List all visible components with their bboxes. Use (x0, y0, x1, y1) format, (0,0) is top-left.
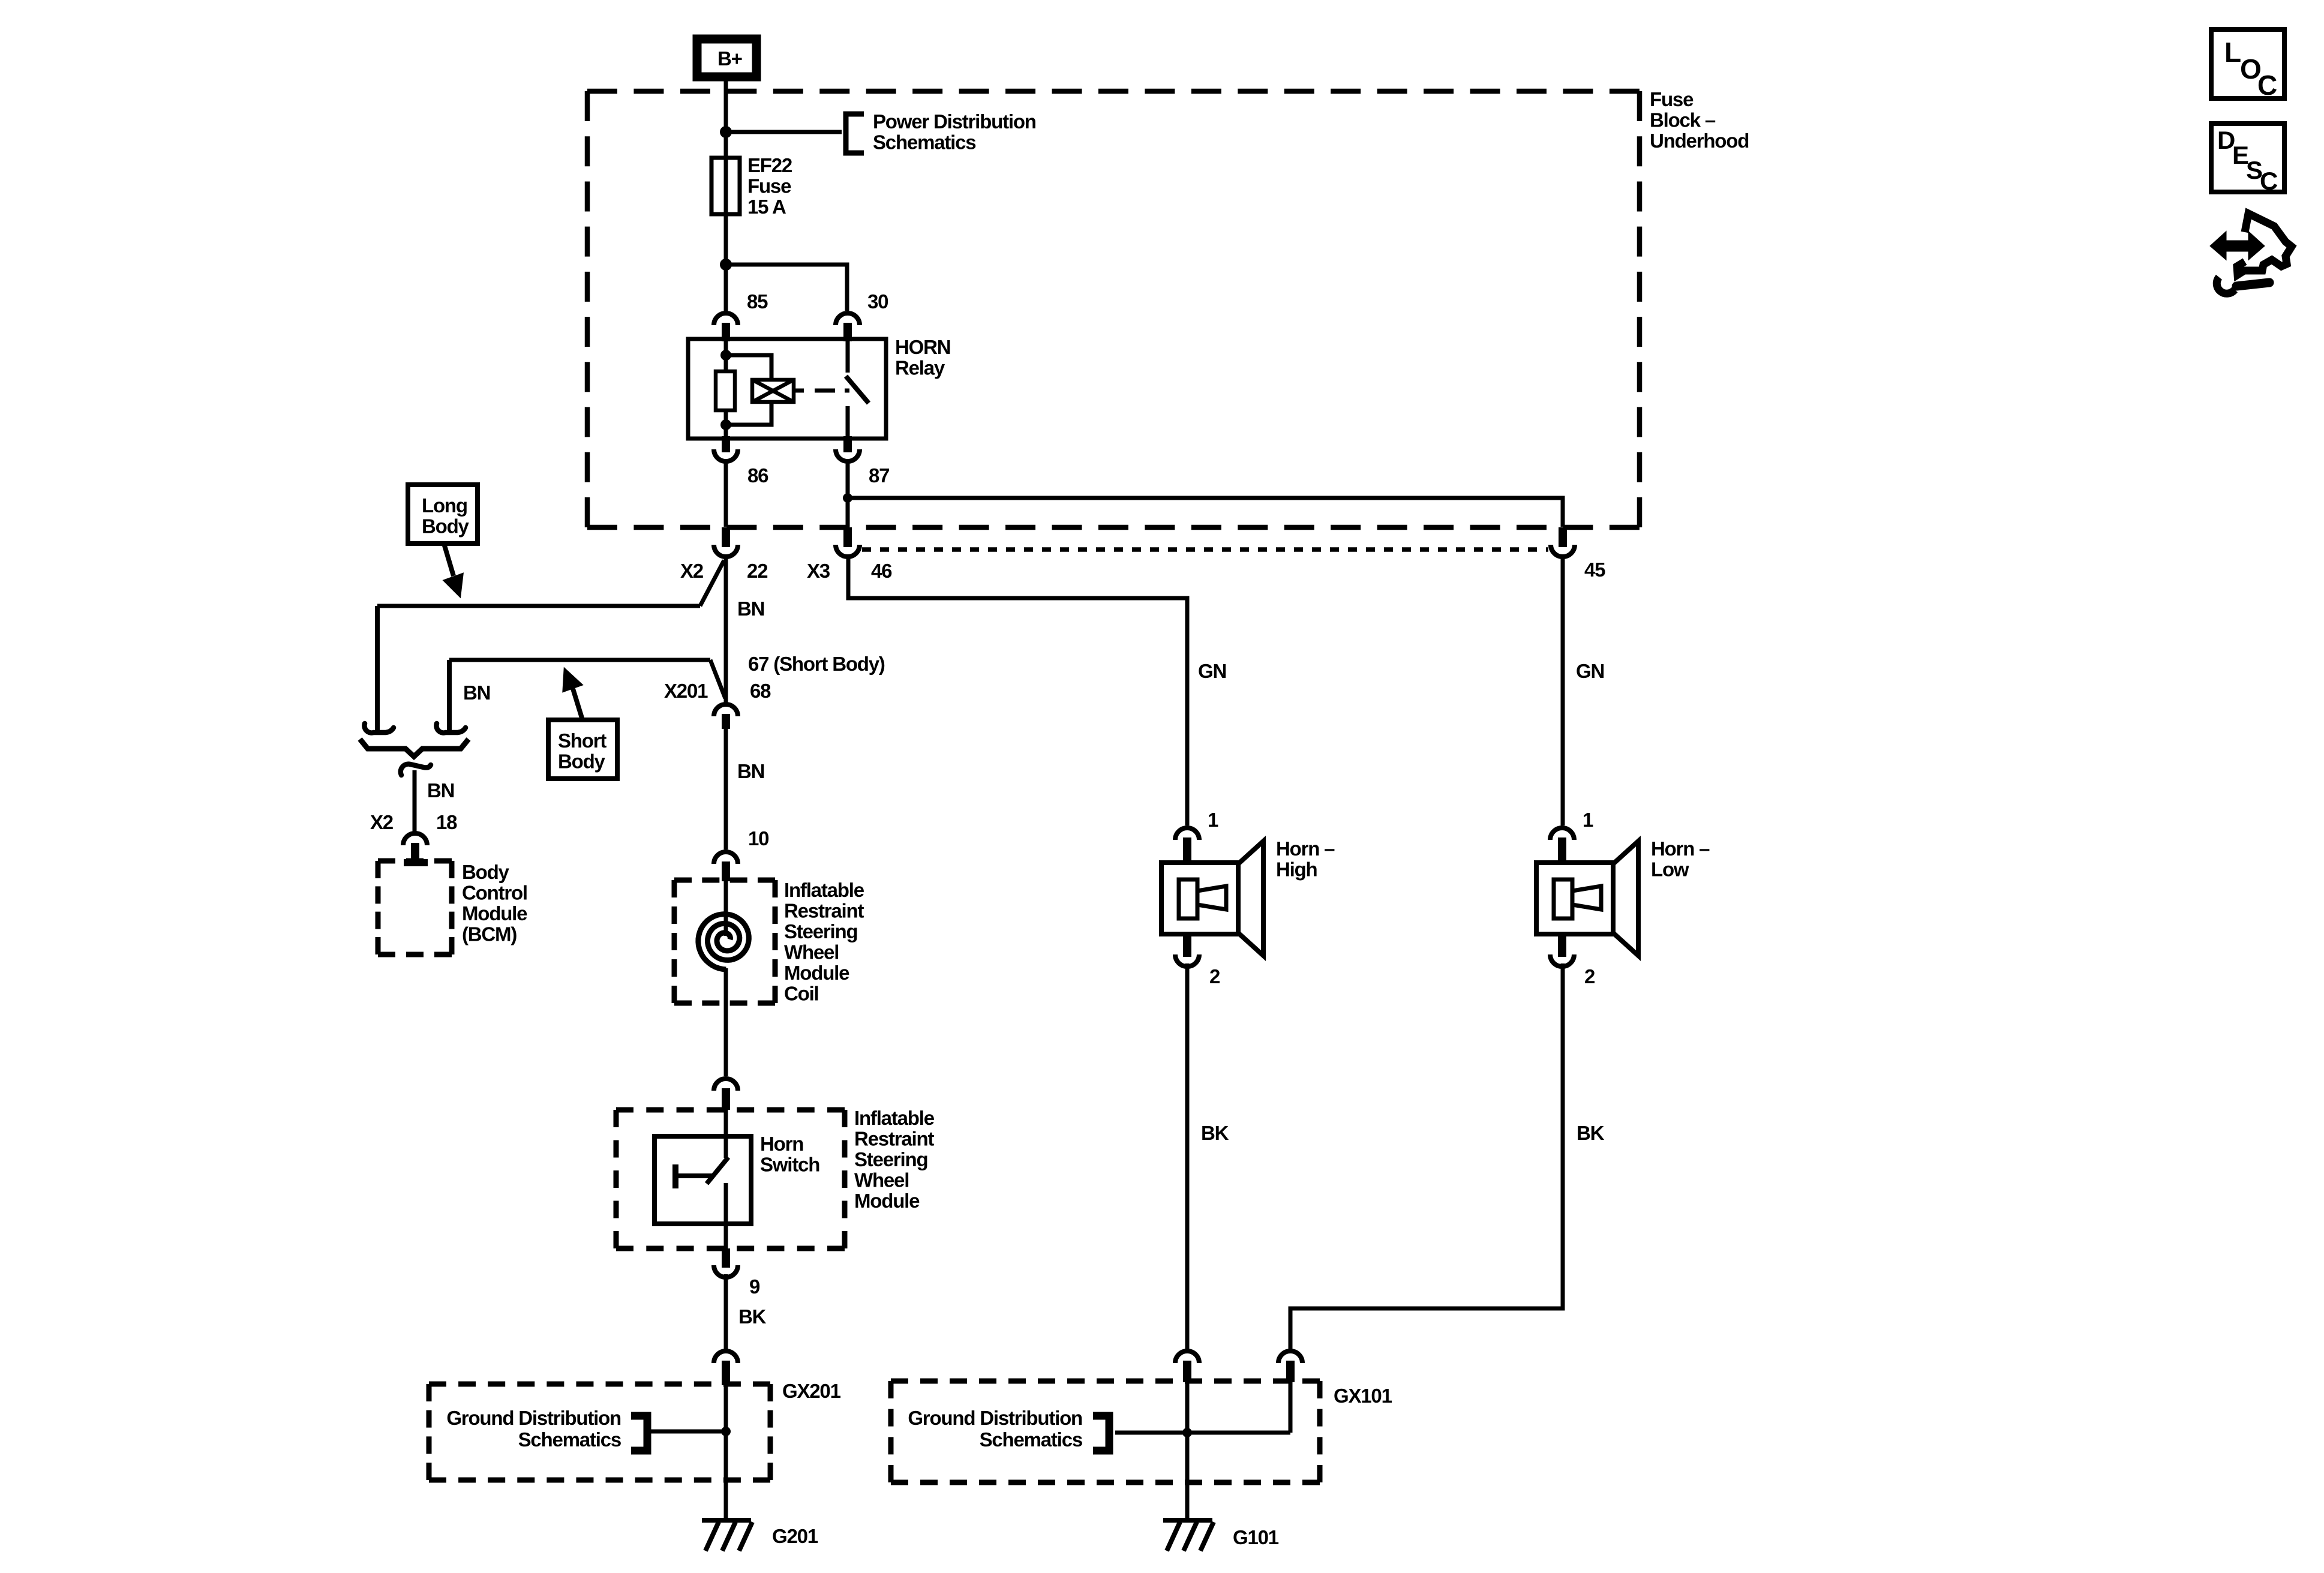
svg-text:BK: BK (1201, 1122, 1229, 1144)
svg-text:9: 9 (749, 1275, 760, 1298)
svg-text:X3: X3 (807, 560, 830, 582)
svg-text:85: 85 (747, 290, 768, 313)
svg-text:Schematics: Schematics (980, 1428, 1082, 1451)
svg-text:B+: B+ (717, 47, 742, 70)
svg-text:Power Distribution: Power Distribution (873, 110, 1036, 133)
svg-text:87: 87 (869, 464, 889, 487)
svg-text:BN: BN (737, 598, 764, 620)
svg-text:Underhood: Underhood (1650, 130, 1749, 152)
svg-text:GX101: GX101 (1334, 1385, 1392, 1407)
svg-text:Horn: Horn (760, 1133, 803, 1155)
svg-text:Ground Distribution: Ground Distribution (908, 1407, 1082, 1429)
svg-text:Horn –: Horn – (1651, 837, 1710, 860)
svg-text:Steering: Steering (854, 1148, 927, 1170)
svg-text:2: 2 (1209, 965, 1220, 987)
svg-text:C: C (2260, 167, 2278, 195)
svg-text:(BCM): (BCM) (462, 923, 517, 945)
svg-text:Restraint: Restraint (854, 1128, 934, 1150)
svg-text:86: 86 (747, 464, 768, 487)
svg-text:1: 1 (1583, 809, 1593, 831)
svg-text:Wheel: Wheel (854, 1169, 909, 1191)
svg-text:High: High (1276, 858, 1317, 881)
svg-text:Body: Body (422, 515, 470, 538)
svg-text:L: L (2224, 37, 2241, 68)
svg-text:68: 68 (750, 680, 771, 702)
svg-text:Module: Module (854, 1190, 920, 1212)
svg-text:BK: BK (738, 1305, 767, 1328)
svg-text:Module: Module (462, 902, 527, 924)
svg-text:X2: X2 (680, 560, 704, 582)
svg-text:10: 10 (748, 827, 768, 849)
svg-text:BN: BN (427, 779, 454, 801)
svg-text:GN: GN (1198, 660, 1226, 682)
svg-text:Fuse: Fuse (747, 175, 791, 197)
svg-text:BK: BK (1577, 1122, 1605, 1144)
svg-text:HORN: HORN (895, 336, 950, 358)
svg-text:Ground Distribution: Ground Distribution (446, 1407, 621, 1429)
svg-text:Relay: Relay (895, 357, 945, 379)
svg-text:BN: BN (737, 760, 764, 782)
svg-text:67 (Short Body): 67 (Short Body) (748, 653, 885, 675)
svg-text:X2: X2 (370, 811, 394, 833)
svg-text:GX201: GX201 (782, 1380, 841, 1402)
svg-text:Steering: Steering (784, 920, 857, 942)
svg-text:Body: Body (558, 751, 606, 773)
svg-text:Schematics: Schematics (518, 1428, 621, 1451)
svg-text:Restraint: Restraint (784, 900, 864, 922)
svg-text:2: 2 (1584, 965, 1595, 987)
svg-text:Short: Short (558, 730, 606, 752)
svg-text:1: 1 (1208, 809, 1218, 831)
svg-text:Switch: Switch (760, 1154, 819, 1176)
svg-text:Long: Long (422, 494, 467, 517)
svg-text:30: 30 (867, 290, 888, 313)
svg-text:X201: X201 (664, 680, 708, 702)
svg-text:Inflatable: Inflatable (854, 1107, 935, 1129)
svg-text:Schematics: Schematics (873, 131, 975, 154)
svg-text:Wheel: Wheel (784, 941, 839, 963)
svg-text:GN: GN (1576, 660, 1604, 682)
svg-text:EF22: EF22 (747, 154, 792, 176)
svg-text:Fuse: Fuse (1650, 88, 1694, 110)
svg-text:BN: BN (463, 682, 490, 704)
svg-text:Inflatable: Inflatable (784, 879, 864, 901)
svg-text:Low: Low (1651, 858, 1689, 881)
svg-text:G101: G101 (1233, 1526, 1279, 1548)
svg-text:Horn –: Horn – (1276, 837, 1335, 860)
svg-text:Body: Body (462, 861, 510, 883)
svg-text:Block –: Block – (1650, 109, 1716, 131)
svg-text:46: 46 (871, 560, 892, 582)
svg-text:22: 22 (747, 560, 768, 582)
svg-text:18: 18 (436, 811, 457, 833)
svg-text:G201: G201 (772, 1525, 818, 1547)
svg-text:C: C (2257, 70, 2277, 101)
svg-text:45: 45 (1584, 559, 1605, 581)
svg-text:Coil: Coil (784, 983, 819, 1005)
svg-text:15 A: 15 A (747, 196, 786, 218)
svg-text:Control: Control (462, 882, 527, 904)
svg-text:Module: Module (784, 962, 849, 984)
